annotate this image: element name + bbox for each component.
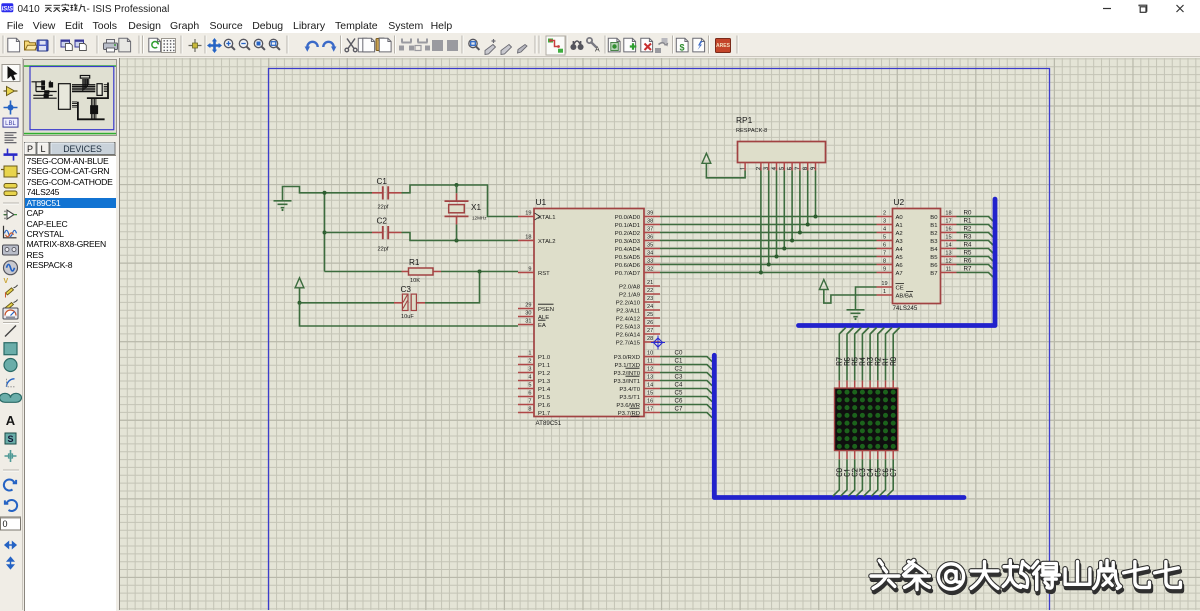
svg-text:16: 16 bbox=[945, 227, 951, 233]
menu bar bbox=[0, 17, 1200, 33]
svg-text:B2: B2 bbox=[930, 231, 937, 237]
svg-text:23: 23 bbox=[647, 296, 653, 302]
svg-text:DEVICES: DEVICES bbox=[63, 144, 102, 154]
svg-text:R1: R1 bbox=[409, 258, 420, 267]
svg-text:17: 17 bbox=[945, 219, 951, 225]
svg-text:C1: C1 bbox=[675, 357, 683, 364]
svg-text:37: 37 bbox=[647, 227, 653, 233]
svg-text:P1.7: P1.7 bbox=[538, 411, 550, 417]
svg-text:P2.2/A10: P2.2/A10 bbox=[616, 300, 641, 306]
wire CE to ground bbox=[856, 287, 877, 310]
svg-text:14: 14 bbox=[945, 243, 951, 249]
LED matrix 8x8 body bbox=[835, 388, 898, 450]
svg-text:13: 13 bbox=[647, 375, 653, 381]
svg-text:P0.2/AD2: P0.2/AD2 bbox=[615, 231, 640, 237]
svg-text:21: 21 bbox=[647, 280, 653, 286]
svg-text:- ISIS Professional: - ISIS Professional bbox=[87, 4, 170, 15]
svg-text:35: 35 bbox=[647, 243, 653, 249]
svg-text:7: 7 bbox=[528, 399, 531, 405]
svg-text:30: 30 bbox=[525, 311, 531, 317]
svg-text:LBL: LBL bbox=[5, 121, 16, 127]
svg-text:XTAL1: XTAL1 bbox=[538, 215, 556, 221]
ground (top left) bbox=[274, 201, 292, 208]
svg-text:25: 25 bbox=[647, 312, 653, 318]
svg-text:C3: C3 bbox=[675, 373, 683, 380]
svg-text:P2.6/A14: P2.6/A14 bbox=[616, 332, 641, 338]
svg-text:A3: A3 bbox=[896, 239, 904, 245]
svg-text:19: 19 bbox=[881, 281, 887, 287]
svg-text:C1: C1 bbox=[377, 177, 388, 186]
wire AB/BA to power bbox=[824, 290, 877, 304]
svg-text:R7: R7 bbox=[964, 265, 972, 272]
svg-text:10uF: 10uF bbox=[401, 314, 414, 320]
svg-text:31: 31 bbox=[525, 319, 531, 325]
svg-text:ARES: ARES bbox=[716, 43, 731, 49]
svg-text:P1.4: P1.4 bbox=[538, 387, 551, 393]
svg-text:7: 7 bbox=[883, 251, 886, 257]
svg-text:12: 12 bbox=[647, 367, 653, 373]
svg-text:CE: CE bbox=[896, 285, 904, 291]
svg-text:ISIS: ISIS bbox=[2, 7, 13, 13]
microcontroller U1 AT89C51 body bbox=[534, 209, 644, 417]
svg-text:I: I bbox=[5, 293, 7, 300]
svg-text:18: 18 bbox=[945, 211, 951, 217]
svg-text:A6: A6 bbox=[896, 263, 904, 269]
matrix bottom pins to bus B bbox=[833, 451, 896, 497]
svg-text:39: 39 bbox=[647, 211, 653, 217]
wire C1 to XTAL1 bbox=[402, 185, 519, 217]
svg-text:P3.0/RXD: P3.0/RXD bbox=[614, 355, 640, 361]
capacitor C1 bbox=[372, 192, 402, 194]
svg-text:RST: RST bbox=[538, 271, 550, 277]
svg-text:5: 5 bbox=[528, 383, 531, 389]
svg-text:P2.5/A13: P2.5/A13 bbox=[616, 324, 641, 330]
svg-text:A: A bbox=[595, 47, 600, 54]
svg-text:3: 3 bbox=[528, 367, 531, 373]
svg-text:V: V bbox=[4, 278, 9, 285]
svg-text:P0.7/AD7: P0.7/AD7 bbox=[615, 271, 640, 277]
resistor pack RP1 RESPACK-8 bbox=[738, 142, 826, 163]
svg-text:8: 8 bbox=[883, 259, 886, 265]
svg-text:PSEN: PSEN bbox=[538, 307, 554, 313]
U2 CE / AB-BA pins bbox=[877, 287, 893, 295]
svg-text:B7: B7 bbox=[930, 271, 937, 277]
svg-text:C3: C3 bbox=[401, 285, 412, 294]
svg-text:28: 28 bbox=[647, 336, 653, 342]
U2 left pins A0-A7 bbox=[877, 211, 904, 277]
svg-text:R2: R2 bbox=[964, 225, 972, 232]
svg-text:1: 1 bbox=[528, 351, 531, 357]
svg-text:32: 32 bbox=[647, 267, 653, 273]
capacitor C2 bbox=[325, 232, 373, 234]
svg-text:4: 4 bbox=[528, 375, 531, 381]
svg-text:P1.3: P1.3 bbox=[538, 379, 551, 385]
svg-text:36: 36 bbox=[647, 235, 653, 241]
svg-text:P2.7/A15: P2.7/A15 bbox=[616, 340, 641, 346]
svg-text:2: 2 bbox=[528, 359, 531, 365]
svg-text:22: 22 bbox=[647, 288, 653, 294]
svg-text:R1: R1 bbox=[964, 217, 972, 224]
wire C2 to XTAL2 bbox=[402, 233, 519, 241]
svg-text:C2: C2 bbox=[377, 217, 388, 226]
svg-text:P1.5: P1.5 bbox=[538, 395, 551, 401]
U2 right pins B0-B7 with R0-R7 nets bbox=[930, 209, 993, 277]
svg-text:16: 16 bbox=[647, 399, 653, 405]
wire to EA bbox=[300, 303, 519, 326]
left object selector panel bbox=[23, 58, 118, 610]
P0 bus wires U1 to U2 bbox=[660, 217, 877, 273]
svg-text:22pf: 22pf bbox=[378, 205, 389, 211]
svg-text:A4: A4 bbox=[896, 247, 904, 253]
wire ground to C1 node bbox=[283, 187, 373, 201]
svg-text:A: A bbox=[6, 413, 16, 428]
svg-text:38: 38 bbox=[647, 219, 653, 225]
svg-text:11: 11 bbox=[647, 359, 653, 365]
svg-text:B4: B4 bbox=[930, 247, 938, 253]
power arrow (reset) bbox=[295, 278, 304, 288]
svg-text:74LS245: 74LS245 bbox=[893, 305, 918, 312]
svg-text:15: 15 bbox=[647, 391, 653, 397]
window title bar bbox=[0, 0, 1200, 17]
svg-text:R5: R5 bbox=[964, 249, 972, 256]
svg-text:13: 13 bbox=[945, 251, 951, 257]
svg-text:C4: C4 bbox=[675, 381, 683, 388]
svg-text:12: 12 bbox=[945, 259, 951, 265]
svg-text:6: 6 bbox=[528, 391, 531, 397]
svg-text:X1: X1 bbox=[471, 203, 481, 212]
svg-text:A2: A2 bbox=[896, 231, 903, 237]
svg-text:19: 19 bbox=[525, 211, 531, 217]
svg-text:26: 26 bbox=[647, 320, 653, 326]
svg-text:P0.6/AD6: P0.6/AD6 bbox=[615, 263, 641, 269]
bus A (rows R0-R7) bbox=[799, 199, 996, 325]
svg-text:6: 6 bbox=[883, 243, 886, 249]
svg-text:29: 29 bbox=[525, 303, 531, 309]
svg-text:R0: R0 bbox=[964, 209, 972, 216]
svg-text:B0: B0 bbox=[930, 215, 938, 221]
svg-text:$: $ bbox=[680, 43, 685, 53]
svg-text:9: 9 bbox=[883, 267, 886, 273]
svg-text:R4: R4 bbox=[964, 241, 972, 248]
wire C3 to RST node bbox=[425, 272, 480, 303]
watermark bbox=[871, 561, 1182, 593]
svg-text:9: 9 bbox=[528, 267, 531, 273]
U1 left pins bbox=[518, 211, 556, 417]
svg-text:U2: U2 bbox=[894, 197, 905, 207]
cursor crosshair at P2.7 bbox=[654, 338, 663, 347]
svg-text:RESPACK-8: RESPACK-8 bbox=[736, 128, 767, 134]
svg-text:P3.3/INT1: P3.3/INT1 bbox=[613, 379, 640, 385]
svg-text:1: 1 bbox=[883, 289, 886, 295]
svg-text:U1: U1 bbox=[536, 197, 547, 207]
svg-text:0: 0 bbox=[3, 519, 8, 529]
svg-text:10K: 10K bbox=[410, 278, 420, 284]
svg-text:C0: C0 bbox=[675, 349, 683, 356]
power arrow (AB/BA) bbox=[819, 280, 828, 290]
svg-text:P0.0/AD0: P0.0/AD0 bbox=[615, 215, 641, 221]
svg-text:RP1: RP1 bbox=[736, 115, 753, 125]
matrix top pins to bus A bbox=[837, 328, 900, 389]
power arrow (RP1 supply) bbox=[702, 153, 711, 163]
P3 net wires with labels C0-C7 bbox=[660, 349, 712, 418]
svg-text:C5: C5 bbox=[675, 389, 683, 396]
svg-text:P0.3/AD3: P0.3/AD3 bbox=[615, 239, 641, 245]
XTAL1 clock chevron bbox=[535, 213, 541, 220]
svg-text:P2.1/A9: P2.1/A9 bbox=[619, 292, 640, 298]
resistor R1 bbox=[325, 271, 519, 273]
svg-text:P2.0/A8: P2.0/A8 bbox=[619, 284, 641, 290]
svg-text:18: 18 bbox=[525, 235, 531, 241]
svg-text:P1.1: P1.1 bbox=[538, 363, 550, 369]
svg-text:5: 5 bbox=[883, 235, 886, 241]
svg-text:P1.2: P1.2 bbox=[538, 371, 550, 377]
svg-text:P0.5/AD5: P0.5/AD5 bbox=[615, 255, 641, 261]
capacitor C3 (electrolytic) bbox=[300, 302, 395, 304]
crystal X1 bbox=[456, 185, 458, 241]
left mode toolbar bbox=[0, 58, 23, 610]
svg-text:XTAL2: XTAL2 bbox=[538, 239, 556, 245]
svg-text:17: 17 bbox=[647, 407, 653, 413]
svg-text:34: 34 bbox=[647, 251, 653, 257]
main toolbar bbox=[0, 33, 1200, 57]
svg-text:R6: R6 bbox=[964, 257, 972, 264]
svg-text:11: 11 bbox=[946, 267, 952, 273]
svg-text:8: 8 bbox=[528, 407, 531, 413]
svg-text:B3: B3 bbox=[930, 239, 938, 245]
svg-text:3: 3 bbox=[883, 219, 886, 225]
svg-text:S: S bbox=[7, 434, 13, 444]
svg-text:33: 33 bbox=[647, 259, 653, 265]
LED matrix dots bbox=[837, 390, 896, 449]
svg-text:L: L bbox=[40, 144, 45, 154]
ground (U2) bbox=[847, 310, 865, 317]
node: C1/C2/R1 vertical bbox=[324, 193, 326, 272]
svg-text:4: 4 bbox=[883, 227, 886, 233]
svg-text:12MHz: 12MHz bbox=[472, 215, 487, 220]
svg-text:A7: A7 bbox=[896, 271, 903, 277]
svg-text:22pf: 22pf bbox=[378, 247, 389, 253]
svg-text:B5: B5 bbox=[930, 255, 938, 261]
RP1 pins 2-9 drops to P0 bbox=[759, 171, 818, 275]
svg-text:AT89C51: AT89C51 bbox=[536, 420, 562, 427]
svg-text:A0: A0 bbox=[896, 215, 904, 221]
svg-text:C2: C2 bbox=[675, 365, 683, 372]
svg-text:10: 10 bbox=[647, 351, 653, 357]
buffer U2 74LS245 body bbox=[893, 209, 941, 304]
svg-text:P2.3/A11: P2.3/A11 bbox=[616, 308, 640, 314]
svg-text:P1.6: P1.6 bbox=[538, 403, 551, 409]
bus B (cols C0-C7) bbox=[714, 355, 964, 497]
svg-text:AB/BA: AB/BA bbox=[896, 293, 913, 299]
svg-text:P0.1/AD1: P0.1/AD1 bbox=[615, 223, 640, 229]
svg-text:R3: R3 bbox=[964, 233, 972, 240]
sheet border bbox=[269, 69, 1050, 611]
svg-text:C6: C6 bbox=[675, 397, 683, 404]
svg-text:C7: C7 bbox=[675, 405, 683, 412]
svg-text:A5: A5 bbox=[896, 255, 904, 261]
svg-text:0410: 0410 bbox=[18, 4, 41, 15]
svg-text:15: 15 bbox=[945, 235, 951, 241]
svg-text:P: P bbox=[26, 144, 32, 154]
svg-text:P3.4/T0: P3.4/T0 bbox=[619, 387, 640, 393]
svg-text:B1: B1 bbox=[930, 223, 937, 229]
svg-text:14: 14 bbox=[647, 383, 653, 389]
svg-text:P1.0: P1.0 bbox=[538, 355, 551, 361]
svg-text:B6: B6 bbox=[930, 263, 938, 269]
svg-text:24: 24 bbox=[647, 304, 653, 310]
svg-text:A1: A1 bbox=[896, 223, 903, 229]
svg-text:P3.5/T1: P3.5/T1 bbox=[619, 395, 640, 401]
svg-text:EA: EA bbox=[538, 323, 546, 329]
svg-text:P0.4/AD4: P0.4/AD4 bbox=[615, 247, 641, 253]
svg-text:27: 27 bbox=[647, 328, 653, 334]
svg-text:P2.4/A12: P2.4/A12 bbox=[616, 316, 640, 322]
svg-text:2: 2 bbox=[883, 211, 886, 217]
U1 right pins bbox=[613, 211, 660, 417]
